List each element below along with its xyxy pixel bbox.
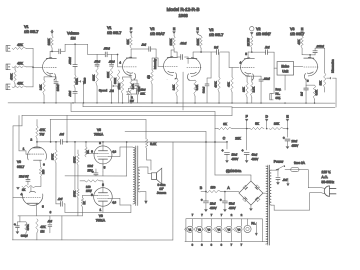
- svg-text:SW.: SW.: [276, 96, 281, 100]
- svg-text:Intensity: Intensity: [153, 58, 157, 69]
- svg-text:47K: 47K: [40, 225, 45, 229]
- svg-text:270K: 270K: [169, 39, 173, 46]
- svg-text:+: +: [242, 149, 244, 153]
- svg-text:Rev.: Rev.: [276, 87, 282, 91]
- svg-text:450V: 450V: [291, 144, 298, 148]
- svg-text:600uf: 600uf: [202, 87, 205, 93]
- svg-text:.02uf: .02uf: [264, 77, 270, 81]
- svg-text:390pf: 390pf: [21, 234, 28, 238]
- svg-text:1/2 6SL7: 1/2 6SL7: [24, 30, 38, 34]
- svg-text:7W: 7W: [39, 132, 44, 136]
- svg-text:.1uf: .1uf: [59, 132, 64, 136]
- svg-text:.05uf: .05uf: [94, 59, 100, 63]
- svg-text:Dimension: Dimension: [331, 59, 335, 73]
- svg-text:1uf: 1uf: [300, 92, 304, 96]
- svg-text:270K: 270K: [50, 154, 54, 160]
- svg-text:+: +: [283, 136, 285, 140]
- svg-text:.01uf: .01uf: [180, 41, 187, 45]
- svg-text:270K: 270K: [72, 157, 76, 163]
- svg-text:+: +: [14, 222, 16, 226]
- svg-text:2K 5W: 2K 5W: [246, 38, 250, 46]
- svg-text:Speed: Speed: [99, 88, 108, 92]
- svg-text:1K: 1K: [82, 201, 86, 204]
- svg-text:47K: 47K: [40, 128, 46, 132]
- svg-text:1/2 6SL7: 1/2 6SL7: [107, 31, 121, 35]
- svg-text:50uf: 50uf: [229, 202, 235, 206]
- svg-text:120K: 120K: [106, 72, 110, 78]
- svg-text:P.L.: P.L.: [251, 221, 256, 225]
- svg-text:450V: 450V: [231, 157, 238, 161]
- svg-text:F: F: [246, 115, 248, 119]
- svg-text:20uf: 20uf: [291, 139, 297, 143]
- svg-text:4,8: 4,8: [112, 149, 116, 153]
- svg-text:140: 140: [86, 185, 91, 189]
- svg-text:.05uf: .05uf: [104, 46, 110, 50]
- svg-text:450V: 450V: [210, 206, 217, 210]
- svg-text:.1uf: .1uf: [141, 43, 146, 47]
- svg-text:500K: 500K: [113, 78, 117, 84]
- svg-text:+: +: [220, 198, 222, 202]
- svg-text:220: 220: [41, 169, 45, 174]
- svg-text:fuse 2A: fuse 2A: [294, 161, 306, 165]
- svg-text:5.4K: 5.4K: [195, 85, 199, 91]
- svg-text:25uf: 25uf: [87, 164, 93, 168]
- svg-text:.005uf: .005uf: [316, 44, 324, 48]
- svg-text:.5uf: .5uf: [265, 45, 270, 49]
- svg-text:+: +: [201, 198, 203, 202]
- svg-text:1uf: 1uf: [214, 45, 218, 49]
- svg-text:470K: 470K: [9, 74, 13, 80]
- svg-text:Volume: Volume: [67, 31, 79, 35]
- svg-text:47K: 47K: [297, 39, 301, 44]
- svg-text:47K: 47K: [17, 61, 23, 65]
- svg-text:25uf 6V: 25uf 6V: [19, 174, 29, 178]
- svg-text:120K: 120K: [47, 38, 51, 45]
- svg-text:47K: 47K: [17, 43, 23, 47]
- svg-text:25K: 25K: [140, 92, 145, 96]
- svg-text:5.6K: 5.6K: [150, 142, 156, 146]
- svg-text:40uf: 40uf: [251, 153, 257, 157]
- svg-text:150: 150: [210, 185, 215, 189]
- svg-text:V6: V6: [17, 160, 21, 164]
- svg-text:2.2K: 2.2K: [38, 84, 42, 90]
- svg-text:22K: 22K: [235, 136, 240, 140]
- svg-text:Jensen: Jensen: [157, 191, 167, 195]
- svg-text:47K: 47K: [226, 82, 230, 87]
- svg-text:V6: V6: [99, 214, 103, 218]
- svg-text:6SL7: 6SL7: [17, 165, 25, 169]
- svg-text:1M: 1M: [40, 229, 45, 233]
- svg-text:1/2 6SL7: 1/2 6SL7: [209, 33, 223, 37]
- svg-text:1/2 6SN7: 1/2 6SN7: [256, 32, 271, 36]
- svg-text:50-60Hz: 50-60Hz: [321, 180, 334, 184]
- svg-text:120 V.: 120 V.: [321, 170, 331, 174]
- svg-text:.002uf: .002uf: [68, 57, 72, 64]
- svg-text:82K: 82K: [126, 39, 130, 44]
- svg-text:7591A: 7591A: [96, 218, 106, 222]
- svg-text:V2: V2: [256, 27, 260, 31]
- svg-text:450V: 450V: [229, 206, 236, 210]
- svg-text:25uf: 25uf: [140, 88, 145, 92]
- svg-text:15K: 15K: [318, 81, 322, 86]
- svg-text:5K: 5K: [255, 122, 259, 126]
- svg-text:1M: 1M: [71, 36, 76, 40]
- svg-text:F: F: [130, 27, 132, 31]
- svg-text:1K: 1K: [86, 150, 90, 153]
- svg-text:270K: 270K: [72, 191, 76, 197]
- svg-text:V1: V1: [24, 25, 28, 29]
- svg-text:1/2 6SA7: 1/2 6SA7: [150, 32, 165, 36]
- svg-text:270K: 270K: [117, 83, 121, 89]
- svg-text:.1uf: .1uf: [282, 178, 287, 182]
- svg-text:+: +: [222, 149, 224, 153]
- svg-text:+: +: [92, 170, 94, 174]
- svg-text:.1uf: .1uf: [58, 197, 63, 201]
- svg-text:Power: Power: [274, 160, 284, 164]
- svg-text:P.L.: P.L.: [276, 92, 281, 96]
- svg-text:A.C.: A.C.: [321, 175, 328, 179]
- svg-text:100K: 100K: [196, 39, 200, 46]
- svg-text:2.2K: 2.2K: [171, 85, 175, 91]
- svg-text:Unit: Unit: [282, 69, 288, 73]
- svg-text:V1: V1: [107, 26, 111, 30]
- svg-text:10K: 10K: [274, 122, 279, 126]
- svg-text:.7M: .7M: [109, 89, 113, 93]
- svg-text:450V: 450V: [251, 157, 258, 161]
- svg-text:V3: V3: [290, 27, 294, 31]
- svg-text:47K: 47K: [17, 81, 23, 85]
- svg-text:Model R-12-R-B: Model R-12-R-B: [167, 7, 200, 12]
- svg-text:9K: 9K: [223, 122, 227, 126]
- svg-text:470K: 470K: [27, 224, 30, 230]
- svg-text:120K: 120K: [91, 75, 95, 81]
- svg-text:Tone: Tone: [83, 77, 87, 84]
- svg-text:4,8: 4,8: [112, 200, 116, 204]
- svg-text:470K: 470K: [213, 81, 217, 87]
- svg-text:.1uf: .1uf: [47, 219, 52, 223]
- svg-text:V2: V2: [209, 28, 213, 32]
- svg-text:2.7K: 2.7K: [252, 87, 256, 93]
- svg-text:22K: 22K: [241, 87, 245, 92]
- svg-text:Echo: Echo: [281, 64, 289, 68]
- svg-text:V2: V2: [150, 27, 154, 31]
- svg-text:10uf: 10uf: [231, 153, 237, 157]
- svg-text:1968: 1968: [178, 13, 188, 18]
- svg-text:100uf: 100uf: [56, 84, 60, 91]
- svg-text:(4)1N4B4a: (4)1N4B4a: [226, 169, 241, 173]
- svg-text:V5: V5: [97, 128, 101, 132]
- svg-text:.01uf: .01uf: [68, 91, 72, 97]
- svg-text:7591A: 7591A: [94, 132, 104, 136]
- svg-text:3.3K: 3.3K: [314, 90, 318, 96]
- svg-text:1K: 1K: [22, 188, 25, 192]
- svg-text:.05uf: .05uf: [109, 59, 115, 63]
- svg-text:20uf: 20uf: [210, 202, 216, 206]
- svg-text:10W: 10W: [86, 189, 92, 193]
